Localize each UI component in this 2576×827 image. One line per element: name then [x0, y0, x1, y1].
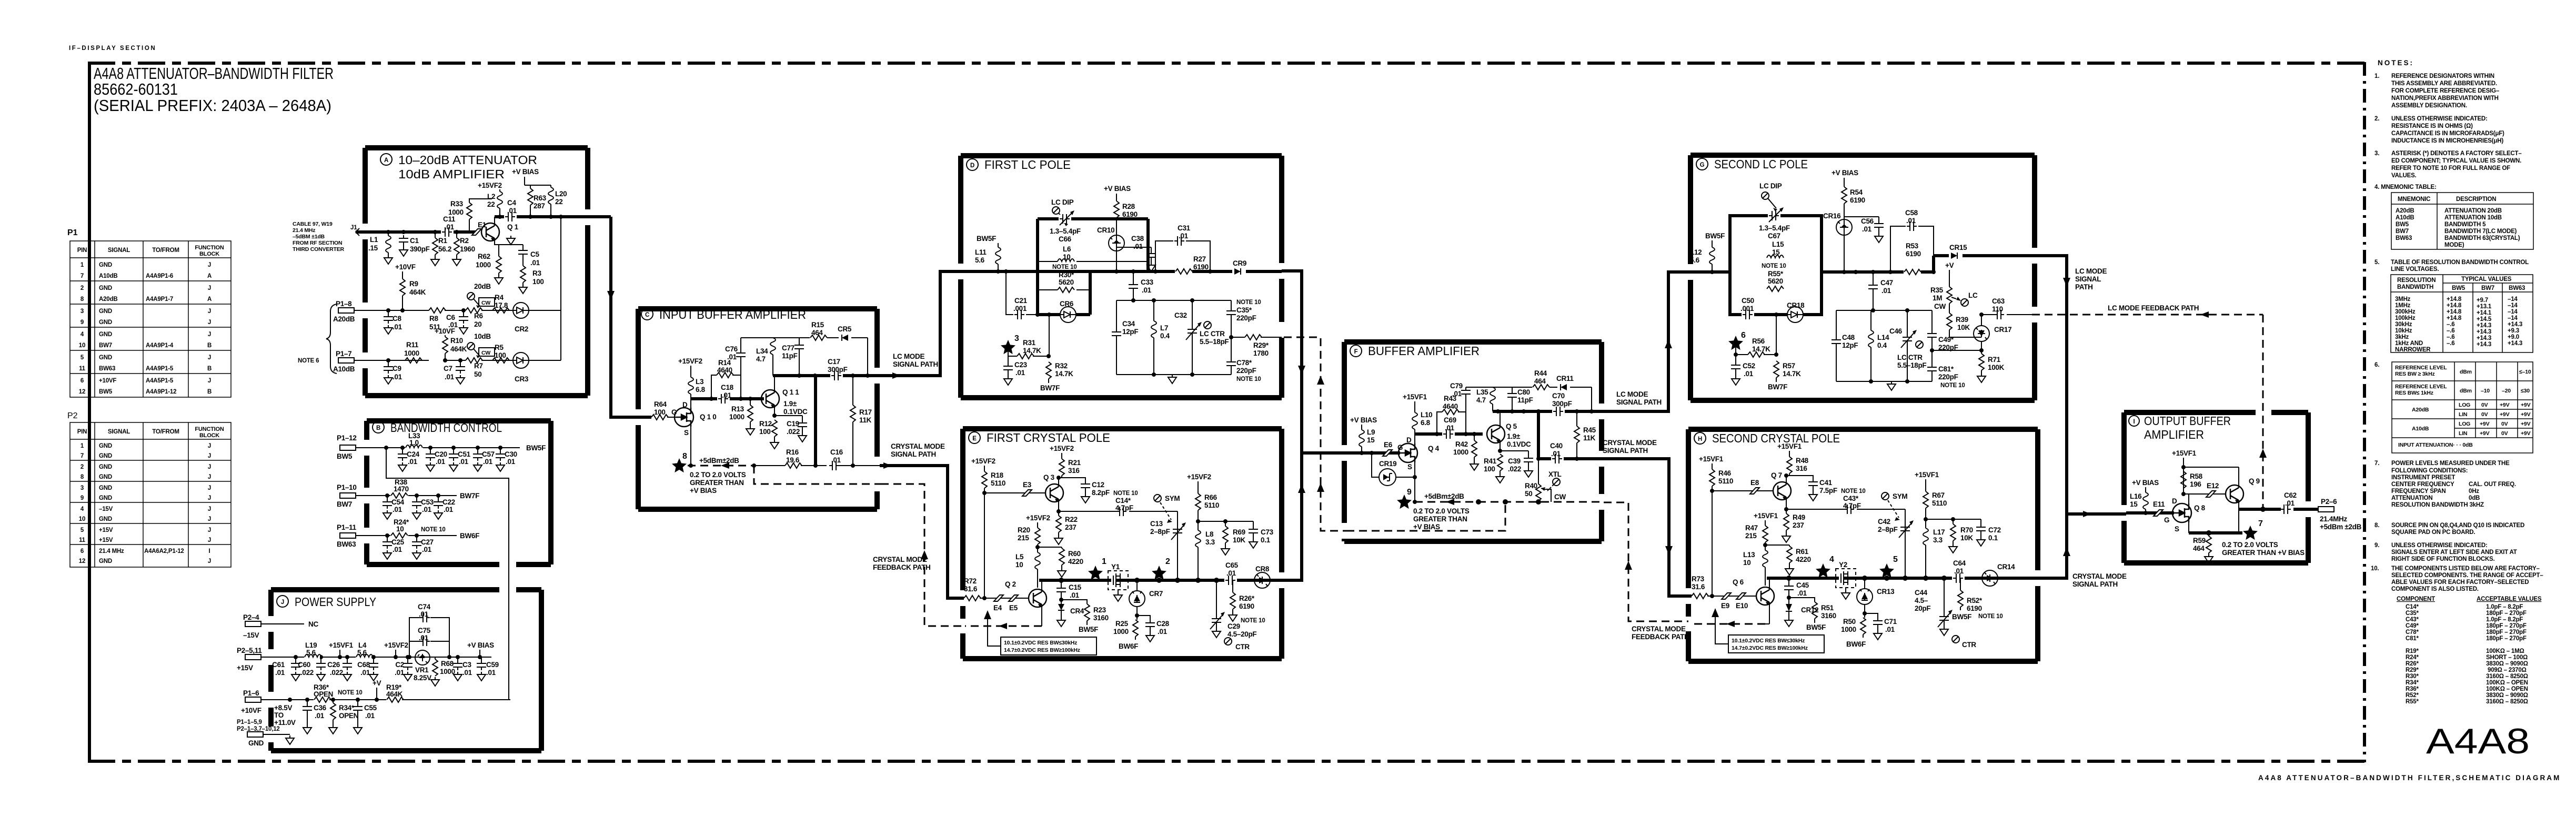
- svg-text:10: 10: [79, 516, 85, 522]
- dashed crystal feedback C to E: [881, 484, 962, 626]
- svg-text:BUFFER AMPLIFIER: BUFFER AMPLIFIER: [1368, 344, 1480, 358]
- svg-text:6190: 6190: [1122, 210, 1138, 218]
- svg-text:J: J: [208, 495, 211, 501]
- capacitor C25: [383, 536, 405, 559]
- svg-text:4.7pF: 4.7pF: [1843, 502, 1861, 510]
- svg-text:C1: C1: [410, 237, 419, 245]
- capacitor C73: [1249, 521, 1274, 548]
- svg-text:C32: C32: [1174, 311, 1187, 319]
- svg-text:5.6: 5.6: [306, 649, 316, 657]
- svg-text:15: 15: [2130, 500, 2138, 508]
- svg-text:3.3: 3.3: [1933, 536, 1943, 544]
- svg-text:.01: .01: [1179, 232, 1189, 240]
- svg-text:110: 110: [1992, 305, 2003, 313]
- label CRYSTAL MODE FEEDBACK PATH (right): [1632, 625, 1689, 641]
- svg-text:GREATER THAN +V BIAS: GREATER THAN +V BIAS: [2222, 549, 2305, 557]
- jumper E6: [1383, 441, 1393, 456]
- svg-text:CR15: CR15: [1949, 244, 1967, 251]
- svg-text:R39: R39: [1956, 316, 1968, 324]
- resistor R48: [1786, 451, 1809, 476]
- measurement box: [984, 610, 1096, 655]
- resistor R11: [404, 341, 422, 363]
- diode CR15: [1949, 244, 1967, 259]
- svg-text:E: E: [972, 436, 977, 442]
- svg-text:.01: .01: [315, 712, 325, 720]
- resistor R13: [729, 399, 754, 435]
- resistor R33: [448, 199, 492, 232]
- svg-text:7: 7: [2258, 519, 2263, 528]
- connector P1-7: [333, 350, 355, 373]
- svg-text:SIGNAL PATH: SIGNAL PATH: [2072, 580, 2118, 588]
- svg-text:C34: C34: [1122, 320, 1135, 328]
- svg-text:L12: L12: [1690, 248, 1702, 256]
- svg-text:J: J: [208, 262, 211, 268]
- svg-text:FEEDBACK PATH: FEEDBACK PATH: [1632, 633, 1689, 641]
- svg-text:1.9±: 1.9±: [1507, 432, 1521, 440]
- svg-text:+15V: +15V: [99, 527, 113, 533]
- svg-text:C49*: C49*: [2406, 623, 2419, 629]
- svg-text:R52*: R52*: [2406, 692, 2419, 699]
- svg-text:NOTE 10: NOTE 10: [1236, 299, 1261, 306]
- capacitor C59: [477, 657, 499, 681]
- svg-text:P2: P2: [67, 411, 78, 420]
- P2 table rows: [79, 443, 211, 564]
- wire D out to F: [1282, 271, 1346, 453]
- block A title circle: [380, 154, 392, 165]
- wire Q10 drain row: [691, 397, 764, 400]
- svg-text:.01: .01: [408, 458, 418, 466]
- note 3: [2374, 150, 2522, 179]
- inductor L35: [1476, 387, 1495, 411]
- resistor R69: [1221, 521, 1245, 555]
- inductor L11: [975, 243, 1001, 271]
- svg-text:+V BIAS: +V BIAS: [1832, 169, 1858, 177]
- star 4: [1816, 555, 1834, 578]
- svg-text:R68: R68: [441, 660, 454, 668]
- svg-text:GREATER THAN: GREATER THAN: [1413, 515, 1467, 523]
- svg-text:H: H: [1698, 436, 1702, 442]
- svg-text:L13: L13: [1743, 551, 1755, 559]
- svg-text:BW7: BW7: [99, 342, 112, 349]
- BW63 row wire: [356, 535, 457, 536]
- jumper E1: [472, 221, 487, 235]
- LC DIP box: [1730, 216, 1822, 315]
- svg-text:BLOCK: BLOCK: [199, 251, 219, 257]
- resistor R67: [1923, 479, 1947, 528]
- resistor R16: [785, 448, 802, 468]
- svg-text:+9V: +9V: [2500, 411, 2510, 418]
- wire A output riser to C input: [611, 217, 651, 417]
- svg-text:11: 11: [79, 366, 86, 372]
- inductor L9: [1359, 425, 1375, 453]
- drain row: [1415, 432, 1483, 436]
- svg-text:Q 7: Q 7: [1771, 471, 1782, 479]
- resistor R43: [1437, 395, 1466, 434]
- svg-text:+10VF: +10VF: [99, 378, 116, 384]
- svg-text:R8: R8: [429, 315, 438, 322]
- svg-text:5.5–18pF: 5.5–18pF: [1200, 338, 1229, 346]
- connector P1-10: [337, 483, 357, 508]
- svg-text:RESOLUTION: RESOLUTION: [2397, 277, 2436, 284]
- svg-text:7.5pF: 7.5pF: [1819, 487, 1837, 495]
- svg-text:J: J: [208, 527, 211, 533]
- svg-text:2–8pF: 2–8pF: [1878, 526, 1898, 533]
- svg-text:BW5F: BW5F: [1705, 232, 1725, 240]
- wire D to Q9 base: [2183, 493, 2226, 495]
- svg-text:TO/FROM: TO/FROM: [152, 429, 179, 435]
- dashed from left riser: [1346, 502, 1505, 531]
- svg-text:C68: C68: [357, 661, 370, 669]
- inductor L5: [1015, 552, 1040, 588]
- resistor R9: [400, 271, 426, 310]
- svg-text:A4A9P1-7: A4A9P1-7: [146, 296, 173, 302]
- svg-text:R73: R73: [1692, 575, 1705, 583]
- svg-text:R33: R33: [450, 200, 464, 208]
- svg-text:J: J: [208, 506, 211, 512]
- svg-text:0Hz: 0Hz: [2469, 488, 2479, 495]
- svg-text:4.7pF: 4.7pF: [1115, 504, 1133, 512]
- svg-text:GREATER THAN: GREATER THAN: [690, 479, 744, 487]
- svg-text:C2: C2: [395, 661, 404, 669]
- svg-text:5.6: 5.6: [975, 256, 985, 264]
- svg-text:14.7±0.2VDC RES BW≥100kHz: 14.7±0.2VDC RES BW≥100kHz: [1004, 647, 1080, 653]
- svg-text:R27: R27: [1193, 255, 1206, 263]
- block J border: [271, 590, 541, 751]
- svg-text:FUNCTION: FUNCTION: [195, 426, 224, 432]
- svg-text:C81*: C81*: [2406, 636, 2419, 642]
- svg-text:C24: C24: [407, 450, 420, 458]
- svg-text:.01: .01: [459, 458, 469, 466]
- svg-text:10K: 10K: [1957, 324, 1970, 331]
- svg-text:220pF: 220pF: [1236, 314, 1256, 322]
- variable capacitor C44: [1915, 578, 1976, 649]
- wire CR3 to bus: [529, 217, 561, 360]
- note 7: [2374, 460, 2516, 508]
- svg-text:BW7F: BW7F: [1040, 384, 1060, 392]
- svg-text:.01: .01: [486, 669, 496, 677]
- dashed LC feedback top: [2032, 315, 2263, 509]
- svg-text:BANDWIDTH 5: BANDWIDTH 5: [2444, 221, 2486, 228]
- svg-text:+5dBm±2dB: +5dBm±2dB: [699, 457, 739, 465]
- svg-text:FIRST LC POLE: FIRST LC POLE: [984, 158, 1071, 172]
- svg-text:9: 9: [80, 319, 84, 326]
- svg-text:C33: C33: [1141, 278, 1154, 286]
- svg-text:22: 22: [487, 200, 495, 208]
- resistor R71: [1977, 341, 2005, 382]
- svg-text:B: B: [207, 366, 212, 372]
- connector P1-8: [333, 300, 355, 323]
- sym adjust C42: [1881, 492, 1907, 521]
- capacitor C9: [384, 360, 402, 384]
- emitter wire to C43: [1786, 509, 1905, 578]
- fet Q10: [671, 401, 717, 437]
- svg-text:C15: C15: [1069, 583, 1082, 591]
- svg-text:R62: R62: [478, 253, 490, 260]
- svg-text:FIRST CRYSTAL POLE: FIRST CRYSTAL POLE: [987, 431, 1110, 445]
- svg-text:J: J: [281, 599, 284, 606]
- svg-text:RESISTANCE IS IN OHMS (Ω): RESISTANCE IS IN OHMS (Ω): [2391, 123, 2473, 129]
- svg-text:15: 15: [1772, 248, 1780, 256]
- svg-text:+9V: +9V: [2521, 411, 2531, 418]
- capacitor C6: [446, 310, 468, 334]
- svg-text:NOTE 10: NOTE 10: [338, 690, 363, 696]
- svg-text:LC DIP: LC DIP: [1759, 182, 1782, 190]
- svg-text:C53: C53: [421, 498, 434, 506]
- wire E out riser: [1282, 453, 1302, 580]
- svg-text:11K: 11K: [1583, 434, 1596, 442]
- resistor R30*: [1052, 264, 1077, 293]
- svg-text:CAPACITANCE IS IN MICROFARADS(: CAPACITANCE IS IN MICROFARADS(μF): [2391, 130, 2504, 137]
- svg-text:.01: .01: [727, 353, 737, 361]
- capacitor C43*: [1841, 488, 1866, 514]
- svg-text:+9.3: +9.3: [2508, 328, 2519, 334]
- resistor R23: [1061, 600, 1109, 633]
- svg-text:.01: .01: [507, 207, 517, 215]
- vertical thick tie: [814, 376, 817, 466]
- svg-text:+15VF1: +15VF1: [1754, 512, 1778, 520]
- svg-text:–.6: –.6: [2447, 340, 2454, 347]
- svg-text:≤–10: ≤–10: [2519, 369, 2531, 375]
- svg-text:–14: –14: [2508, 302, 2518, 309]
- svg-text:+8.5V: +8.5V: [274, 704, 292, 712]
- svg-text:FOR COMPLETE REFERENCE DESIG–: FOR COMPLETE REFERENCE DESIG–: [2391, 88, 2500, 94]
- svg-text:SQUARE PAD ON PC BOARD.: SQUARE PAD ON PC BOARD.: [2391, 529, 2475, 536]
- svg-text:L8: L8: [1205, 530, 1214, 538]
- diode CR10: [1097, 226, 1124, 251]
- svg-text:SIGNAL: SIGNAL: [2075, 275, 2101, 283]
- block I border: [2124, 412, 2308, 563]
- svg-text:CR3: CR3: [515, 375, 529, 383]
- svg-text:GND: GND: [248, 739, 264, 747]
- LC row: [773, 374, 880, 377]
- pot R7: [466, 332, 495, 378]
- resistor R55*: [1762, 263, 1786, 292]
- svg-text:.01: .01: [436, 458, 446, 466]
- svg-text:7: 7: [80, 453, 84, 459]
- svg-text:CR17: CR17: [1994, 326, 2011, 334]
- svg-text:6: 6: [80, 378, 84, 384]
- svg-text:C78*: C78*: [2406, 629, 2419, 636]
- sheet outer dashed border top: [88, 62, 2364, 65]
- svg-text:180pF – 270pF: 180pF – 270pF: [2486, 623, 2527, 629]
- svg-text:R36*: R36*: [2406, 686, 2419, 692]
- svg-text:6.8: 6.8: [1421, 419, 1431, 427]
- svg-text:–14: –14: [2508, 315, 2518, 321]
- svg-text:GND: GND: [99, 453, 112, 459]
- svg-text:P2–4: P2–4: [243, 613, 259, 621]
- svg-text:1000: 1000: [476, 261, 491, 269]
- svg-text:8: 8: [80, 474, 84, 480]
- svg-text:0.1VDC: 0.1VDC: [783, 408, 808, 416]
- svg-text:GND: GND: [99, 285, 112, 291]
- svg-text:C27: C27: [421, 538, 434, 546]
- svg-text:L19: L19: [305, 641, 317, 649]
- svg-text:12: 12: [79, 389, 85, 395]
- svg-text:–.6: –.6: [2447, 334, 2454, 340]
- capacitor C8: [384, 310, 402, 334]
- diode CR9: [1232, 259, 1246, 275]
- svg-text:C40: C40: [1550, 442, 1563, 450]
- svg-text:5: 5: [80, 355, 84, 361]
- star 9: [1397, 488, 1412, 509]
- svg-text:A4A6A2,P1-12: A4A6A2,P1-12: [144, 548, 184, 554]
- svg-text:909Ω – 2370Ω: 909Ω – 2370Ω: [2488, 667, 2527, 673]
- svg-text:BW6F: BW6F: [1119, 642, 1138, 650]
- svg-text:1000: 1000: [1113, 628, 1129, 636]
- svg-text:SIGNAL PATH: SIGNAL PATH: [1603, 447, 1648, 455]
- svg-text:.01: .01: [1226, 569, 1236, 577]
- svg-text:+V BIAS: +V BIAS: [1350, 416, 1377, 424]
- block F border: [1344, 342, 1602, 541]
- svg-text:I: I: [2134, 419, 2135, 425]
- svg-text:LC MODE: LC MODE: [893, 352, 924, 360]
- svg-text:Q 5: Q 5: [1506, 422, 1517, 430]
- svg-text:+15VF1: +15VF1: [1403, 393, 1427, 401]
- svg-text:LC CTR: LC CTR: [1897, 354, 1923, 361]
- svg-text:0V: 0V: [2481, 411, 2488, 418]
- svg-text:L3: L3: [696, 378, 704, 386]
- transistor Q2: [1005, 580, 1046, 626]
- capacitor C71: [1865, 613, 1897, 640]
- svg-text:SIGNAL PATH: SIGNAL PATH: [893, 360, 938, 368]
- P2 table header text: [77, 426, 224, 439]
- svg-text:C21: C21: [1014, 297, 1028, 305]
- svg-text:C42: C42: [1878, 518, 1890, 526]
- svg-text:J: J: [208, 474, 211, 480]
- svg-text:A20dB: A20dB: [99, 296, 117, 302]
- block H title circle: [1694, 432, 1706, 444]
- svg-text:D: D: [2172, 497, 2177, 505]
- svg-text:C45: C45: [1796, 581, 1809, 589]
- svg-text:C74: C74: [418, 603, 431, 611]
- svg-text:A20dB: A20dB: [333, 315, 355, 323]
- svg-text:BW5F: BW5F: [1952, 613, 1971, 621]
- connector P1-11: [337, 523, 357, 548]
- svg-text:F: F: [1354, 349, 1358, 355]
- svg-text:R4: R4: [495, 294, 504, 301]
- svg-text:20dB: 20dB: [474, 283, 491, 290]
- svg-text:R59: R59: [2193, 537, 2206, 544]
- svg-text:R56: R56: [1752, 337, 1765, 345]
- svg-text:L5: L5: [1015, 553, 1024, 561]
- vertical tie: [1537, 411, 1540, 459]
- svg-text:215: 215: [1745, 532, 1757, 540]
- note 9: [2374, 542, 2517, 562]
- block D border: [961, 156, 1282, 398]
- svg-text:.01: .01: [419, 610, 429, 618]
- svg-text:6190: 6190: [1850, 196, 1865, 204]
- resistor R1: [431, 232, 451, 266]
- svg-text:J: J: [208, 453, 211, 459]
- pot R35: [1930, 270, 1978, 313]
- svg-text:S: S: [2175, 525, 2179, 533]
- svg-text:1: 1: [1102, 557, 1106, 566]
- input row: [1342, 451, 1400, 455]
- svg-text:.01: .01: [1551, 450, 1561, 458]
- jumper E4: [993, 595, 1003, 612]
- capacitor C49*: [1927, 310, 1958, 351]
- svg-text:1000: 1000: [440, 668, 455, 675]
- svg-text:E6: E6: [1384, 441, 1393, 449]
- fet Q4: [1397, 436, 1440, 471]
- node dots A10dB row: [386, 358, 390, 362]
- svg-text:C54: C54: [391, 498, 405, 506]
- capacitor C36: [303, 700, 327, 734]
- svg-text:4.5–20pF: 4.5–20pF: [1227, 630, 1256, 638]
- svg-text:R40: R40: [1525, 482, 1537, 490]
- svg-text:BANDWIDTH CONTROL: BANDWIDTH CONTROL: [390, 421, 502, 435]
- connector P2-5,11: [237, 647, 262, 672]
- svg-text:3.3: 3.3: [1205, 538, 1215, 546]
- svg-text:R24*: R24*: [2406, 654, 2419, 661]
- svg-text:464K: 464K: [409, 288, 426, 296]
- svg-text:GND: GND: [99, 485, 112, 491]
- capacitor C81*: [1927, 348, 1965, 389]
- jumper E9: [1721, 593, 1731, 610]
- wire R64 to Q10: [667, 417, 676, 418]
- P2 table grid: [70, 422, 231, 567]
- svg-text:+15VF2: +15VF2: [384, 641, 408, 649]
- svg-text:LC MODE: LC MODE: [1616, 390, 1648, 398]
- measurement box: [1712, 608, 1824, 653]
- resistor R22: [1054, 509, 1078, 544]
- inductor L14: [1868, 310, 1889, 381]
- svg-text:.01: .01: [1142, 286, 1152, 294]
- svg-text:R30*: R30*: [1059, 271, 1074, 279]
- svg-text:ASTERISK (*) DENOTES A FACTORY: ASTERISK (*) DENOTES A FACTORY SELECT–: [2391, 150, 2522, 157]
- main row left: [1688, 270, 1730, 274]
- svg-text:3MHz: 3MHz: [2395, 296, 2411, 302]
- svg-text:GND: GND: [99, 474, 112, 480]
- svg-text:C39: C39: [1508, 457, 1521, 465]
- bias rail right: [1926, 519, 1981, 520]
- svg-text:4.5–: 4.5–: [1915, 597, 1928, 604]
- svg-text:10.1±0.2VDC RES BW≤30kHz: 10.1±0.2VDC RES BW≤30kHz: [1732, 638, 1805, 644]
- svg-text:C36: C36: [314, 704, 327, 712]
- svg-text:L9: L9: [1367, 428, 1375, 436]
- svg-text:CRYSTAL MODE: CRYSTAL MODE: [1603, 439, 1657, 447]
- NOTE 6 brace: [326, 304, 337, 374]
- svg-text:GND: GND: [99, 516, 112, 522]
- svg-text:R29*: R29*: [2406, 667, 2419, 673]
- svg-text:BANDWIDTH: BANDWIDTH: [2397, 284, 2433, 290]
- svg-text:C47: C47: [1880, 279, 1893, 287]
- svg-text:BW5F: BW5F: [1806, 623, 1826, 631]
- svg-text:14.7K: 14.7K: [1023, 347, 1041, 355]
- svg-text:3kHz: 3kHz: [2395, 334, 2409, 340]
- svg-text:INPUT BUFFER AMPLIFIER: INPUT BUFFER AMPLIFIER: [659, 308, 806, 321]
- svg-text:LOG: LOG: [2459, 421, 2470, 427]
- svg-text:C7: C7: [444, 365, 452, 372]
- resistor R45: [1574, 411, 1596, 459]
- resistor R59: [2193, 533, 2213, 563]
- svg-text:180pF – 270pF: 180pF – 270pF: [2486, 636, 2527, 642]
- capacitor C53: [412, 496, 434, 519]
- svg-text:+13.1: +13.1: [2477, 304, 2492, 310]
- svg-text:C14*: C14*: [1115, 497, 1131, 505]
- resistor R12: [759, 413, 779, 449]
- inductor L13: [1743, 550, 1768, 586]
- svg-text:REFERENCE LEVEL: REFERENCE LEVEL: [2395, 365, 2447, 371]
- resistor R61: [1763, 543, 1811, 575]
- svg-text:+9V: +9V: [2480, 430, 2490, 437]
- svg-text:C46: C46: [1889, 327, 1903, 335]
- resistor R17: [850, 376, 872, 466]
- svg-text:17.8: 17.8: [495, 301, 508, 309]
- diode CR3: [513, 352, 529, 383]
- svg-text:C44: C44: [1915, 589, 1928, 597]
- svg-text:BW63: BW63: [337, 540, 356, 548]
